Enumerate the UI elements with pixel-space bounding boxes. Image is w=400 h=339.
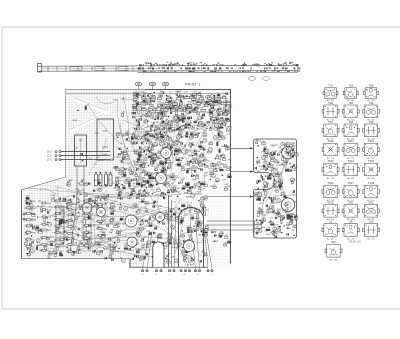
capacitor C1466 [256, 232, 257, 234]
capacitor C845 [150, 150, 151, 152]
resistor R408 [25, 245, 36, 248]
trace wire 22 [75, 229, 143, 239]
transistor T1408 [137, 233, 141, 237]
trace wire 16 [94, 213, 96, 246]
capacitor C114 [210, 101, 211, 103]
resistor R1628 [281, 219, 286, 224]
solder pad 1685 [126, 248, 127, 249]
resistor R777 [204, 196, 207, 199]
chassis strip mid rail [42, 67, 160, 70]
svg-text:1n: 1n [196, 167, 198, 169]
resistor R873 [226, 111, 230, 115]
capacitor C267 [203, 114, 204, 116]
resistor R141 [225, 110, 229, 114]
resistor R1119 [205, 233, 209, 237]
solder pad 1651 [91, 242, 92, 243]
resistor R1600 [291, 152, 294, 157]
solder pad 1361 [260, 220, 261, 221]
corner pad [28, 253, 31, 256]
resistor R352 [166, 105, 169, 108]
svg-text:15k: 15k [201, 240, 204, 242]
resistor R739 [194, 134, 198, 138]
capacitor C131 [183, 120, 184, 122]
resistor R225 [187, 105, 190, 108]
trace wire 14 [126, 242, 168, 250]
resistor R911 [213, 168, 217, 171]
resistor R958 [197, 223, 203, 226]
capacitor C1480 [219, 235, 220, 237]
capacitor C1618 [266, 168, 267, 170]
capacitor C1276 [81, 153, 82, 155]
solder pad 119 [188, 124, 189, 125]
solder pad 694 [164, 132, 165, 133]
capacitor C500 [174, 153, 175, 155]
transistor T793 [227, 126, 231, 130]
resistor R402 [25, 207, 38, 210]
resistor R913 [221, 154, 225, 157]
resistor R1253 [103, 195, 107, 199]
resistor R1084 [180, 218, 185, 223]
solder pad 1652 [27, 238, 28, 239]
solder pad 190 [206, 128, 207, 129]
trace wire 54 [137, 98, 177, 185]
resistor R415 [40, 243, 52, 246]
resistor R1261 [83, 234, 87, 237]
resistor R616 [119, 171, 124, 175]
part footprint TS6 [363, 101, 380, 122]
resistor R1505 [119, 230, 124, 235]
solder pad 262 [206, 102, 207, 103]
transistor T1089 [55, 228, 59, 232]
capacitor C424 [180, 136, 181, 138]
resistor R444 [162, 164, 167, 167]
capacitor C480 [187, 107, 192, 110]
resistor R976 [204, 252, 207, 255]
capacitor C804 [149, 184, 150, 186]
capacitor C266 [137, 119, 138, 121]
capacitor C309 [170, 127, 171, 129]
capacitor C97 C98 (axial pair) [105, 172, 113, 186]
resistor R584 [204, 183, 208, 187]
resistor R368 [215, 116, 220, 120]
capacitor C385 [155, 129, 156, 131]
resistor R1164 [71, 212, 74, 215]
transistor T1493 [270, 156, 274, 160]
resistor R869 [217, 141, 222, 146]
solder pad 679 [197, 135, 198, 136]
capacitor C651 [147, 149, 148, 151]
trace wire 65 [144, 98, 219, 140]
resistor R335 [145, 112, 151, 117]
resistor R1215 [51, 198, 56, 202]
resistor R372 [176, 122, 180, 126]
resistor R1161 [110, 218, 114, 222]
resistor R339 [169, 98, 174, 102]
resistor R998 [205, 227, 209, 230]
solder pad 402 [124, 169, 125, 170]
transistor T263 [206, 95, 210, 99]
resistor R145 [199, 101, 204, 104]
resistor R332 [192, 97, 196, 100]
small board pin label 3 [254, 225, 262, 229]
bottom terminal B11 [198, 270, 200, 272]
capacitor C1083 [167, 255, 168, 257]
solder pad 331 [153, 101, 154, 102]
trace wire 7 [89, 193, 191, 197]
trace wire 71 [88, 104, 122, 145]
solder pad 1304 [265, 176, 266, 177]
resistor R1529 [81, 179, 85, 183]
part footprint TS7 [322, 120, 339, 141]
transistor T223 [150, 115, 154, 119]
solder pad 689 [144, 151, 145, 152]
resistor R554 [156, 156, 162, 159]
capacitor C1377 [259, 180, 260, 182]
resistor R1233 [69, 200, 74, 204]
trace wire 5 [97, 202, 164, 218]
resistor R1680 [135, 217, 139, 220]
resistor R727 [190, 132, 193, 135]
capacitor C256 [150, 129, 151, 131]
solder pad 649 [139, 194, 140, 195]
svg-text:1n: 1n [138, 165, 140, 167]
capacitor C538 [168, 167, 169, 169]
transistor T185 [133, 93, 137, 97]
capacitor C1619 [287, 152, 288, 154]
solder pad 900 [218, 125, 219, 126]
resistor R1585 [136, 92, 141, 95]
capacitor C631 [202, 154, 203, 156]
resistor R384 [226, 101, 231, 104]
resistor R700 [195, 152, 198, 155]
resistor R1194 [26, 201, 31, 205]
solder pad 210 [188, 126, 189, 127]
transistor T914 [159, 260, 163, 264]
transistor T785 [213, 136, 217, 140]
transistor T622 [174, 142, 178, 146]
solder pad 620 [134, 142, 135, 143]
resistor R1542 [67, 181, 72, 185]
resistor R665 [143, 190, 147, 194]
resistor R1474 [224, 242, 229, 246]
capacitor C470 [204, 101, 208, 106]
capacitor C1259 [73, 251, 74, 253]
solder pad 573 [187, 164, 188, 165]
resistor R1559 [67, 199, 71, 202]
solder pad 1359 [286, 197, 287, 198]
resistor R1561 [76, 197, 79, 203]
capacitor C171 [186, 123, 187, 125]
resistor R1592 [275, 168, 279, 174]
solder pad 1133 [37, 217, 38, 218]
svg-text:AC 114: AC 114 [347, 177, 355, 180]
solder pad 569 [161, 134, 162, 135]
solder pad 313 [179, 127, 180, 128]
part footprint S10 [363, 220, 380, 241]
resistor R1563 [89, 203, 94, 207]
resistor R592 [198, 162, 202, 165]
small board PRINT 2 outline [254, 139, 297, 238]
resistor R525 [167, 154, 170, 157]
resistor R1045 [183, 258, 188, 261]
resistor R1373 [266, 183, 269, 187]
capacitor C483 [210, 107, 215, 111]
bottom terminal B13 [211, 270, 213, 272]
transistor T1289 [271, 152, 275, 156]
resistor R1105 [181, 203, 186, 207]
svg-text:TS 20 + 21: TS 20 + 21 [349, 241, 361, 244]
capacitor C666 [153, 144, 154, 146]
connector oval J63 [162, 82, 169, 89]
resistor R1601 [292, 145, 297, 149]
resistor R617 [118, 192, 122, 196]
trace wire 50 [152, 120, 182, 128]
resistor R481 [167, 190, 170, 193]
resistor R165 [187, 106, 190, 110]
resistor R485 [155, 167, 160, 170]
transistor T112 [188, 125, 192, 129]
capacitor C1112 [153, 205, 154, 207]
capacitor C752 [191, 161, 192, 163]
transistor T1022 [139, 227, 143, 231]
trace wire 9 [101, 179, 172, 187]
resistor R314 [225, 102, 229, 107]
chassis tick 8 [125, 66, 127, 71]
resistor R1475 [225, 235, 229, 239]
solder pad 630 [198, 133, 199, 134]
solder pad 1416 [257, 157, 258, 158]
resistor R1219 [59, 211, 65, 215]
trace wire 78 [265, 146, 292, 203]
solder pad 1485 [211, 231, 212, 232]
svg-text:S9: S9 [349, 220, 353, 224]
transistor T828 [217, 162, 221, 166]
capacitor C1030 [154, 201, 155, 203]
transistor T273 [193, 101, 197, 105]
trimmer C61 [127, 237, 137, 247]
bottom terminal B9 [188, 270, 190, 272]
svg-text:15k: 15k [186, 252, 189, 254]
resistor R1625 [287, 223, 290, 226]
trace wire 18 [80, 232, 142, 250]
transistor T1155 [29, 204, 33, 208]
solder pad 460 [204, 164, 205, 165]
solder pad 957 [142, 219, 143, 220]
capacitor C839 [127, 133, 128, 135]
svg-text:GR1: GR1 [348, 200, 354, 204]
resistor R1573 [193, 93, 198, 96]
capacitor C1270 [65, 230, 66, 232]
resistor R909 [229, 107, 234, 112]
capacitor C376 [151, 125, 152, 127]
resistor R425 [66, 203, 78, 206]
resistor R1307 [295, 216, 300, 219]
resistor R102 [206, 102, 211, 105]
svg-text:AC 113: AC 113 [327, 177, 335, 180]
solder pad 919 [208, 104, 209, 105]
capacitor C251 [185, 126, 186, 128]
capacitor C433 [140, 154, 141, 156]
solder pad 215 [202, 114, 203, 115]
svg-text:AC 115: AC 115 [367, 177, 375, 180]
resistor R221 [175, 115, 179, 118]
resistor R833 [165, 155, 169, 159]
resistor R1518 [84, 182, 88, 185]
capacitor C1564 [182, 95, 183, 97]
svg-text:C204: C204 [61, 201, 67, 203]
part footprint TS19 [322, 200, 339, 221]
svg-text:15k: 15k [51, 237, 54, 239]
chassis bracket 3 [118, 67, 128, 70]
terminal JO3 [47, 159, 61, 162]
part footprint TS5 [342, 101, 359, 122]
resistor R420 [54, 218, 66, 221]
capacitor C948 [163, 222, 164, 224]
resistor R618 [169, 162, 175, 168]
capacitor C1633 [272, 211, 273, 213]
resistor R1584 [177, 91, 182, 96]
resistor R447 [136, 137, 141, 143]
trace wire 72 [96, 97, 114, 104]
resistor R432 [66, 243, 78, 246]
svg-text:B 250 47k: B 250 47k [183, 259, 194, 261]
IF transformer L10 [56, 206, 64, 244]
resistor R793 [132, 190, 135, 193]
solder pad 275 [137, 97, 138, 98]
trace wire 32 [48, 190, 107, 216]
trace wire 1 [56, 194, 97, 200]
capacitor C1464 [290, 169, 291, 171]
svg-text:TS19: TS19 [327, 200, 334, 204]
resistor R1238 [116, 230, 120, 234]
capacitor C888 [217, 118, 218, 120]
trace wire 3 [135, 197, 187, 210]
capacitor C1170 [109, 237, 110, 239]
capacitor C479 [178, 107, 183, 111]
resistor R542 [161, 168, 166, 171]
transistor T1002 [183, 253, 187, 257]
capacitor C1513 [137, 251, 138, 253]
capacitor C604 [164, 168, 165, 170]
resistor R843 [152, 154, 158, 157]
chassis strip dense underline [138, 71, 298, 73]
unrouted river band [70, 100, 106, 131]
transistor T790 [223, 164, 227, 168]
trace wire 60 [170, 118, 175, 182]
resistor R582 [175, 151, 180, 154]
resistor R1371 [293, 224, 298, 227]
bottom terminal B2 [146, 270, 148, 272]
resistor R401 [25, 200, 37, 203]
trace wire 24 [59, 233, 150, 257]
resistor R742 [179, 150, 184, 153]
solder pad 836 [155, 170, 156, 171]
resistor R891 [210, 171, 214, 175]
capacitor C1029 [160, 216, 161, 218]
solder pad 116 [162, 122, 163, 123]
resistor R1311 [282, 156, 287, 161]
resistor R130 [163, 114, 167, 117]
transistor T358 [170, 187, 174, 191]
capacitor C637 [141, 142, 142, 144]
solder pad 199 [212, 95, 213, 96]
capacitor C1419 [285, 143, 286, 145]
transistor T170 [165, 120, 169, 124]
solder pad 1278 [82, 160, 83, 161]
resistor R1401 [259, 196, 264, 200]
transistor T1048 [104, 197, 108, 201]
svg-text:22n: 22n [144, 135, 147, 137]
svg-text:22n: 22n [225, 111, 228, 113]
wire fan 5 [190, 220, 196, 269]
transistor T1139 [49, 251, 53, 255]
capacitor C461 [133, 101, 138, 106]
solder pad 245 [150, 128, 151, 129]
resistor R634 [123, 168, 129, 173]
capacitor C1553 [94, 202, 95, 204]
river edge line [75, 98, 106, 111]
resistor R409 [41, 202, 52, 205]
resistor R1437 [281, 191, 286, 194]
capacitor C528 [136, 196, 137, 198]
solder pad 862 [210, 179, 211, 180]
small board pin label 4 [254, 229, 262, 233]
capacitor C244 [190, 117, 191, 119]
trace wire 46 [164, 119, 202, 174]
resistor R1315 [267, 228, 270, 231]
solder pad 1335 [278, 226, 279, 227]
svg-text:22n: 22n [262, 141, 265, 143]
capacitor C1001 [192, 217, 193, 219]
solder pad 527 [165, 194, 166, 195]
resistor R1353 [264, 152, 269, 156]
resistor R441 [83, 245, 94, 248]
solder pad 1264 [47, 217, 48, 218]
resistor R612 [148, 155, 152, 158]
resistor R465 [177, 133, 182, 136]
capacitor C495 [148, 139, 149, 141]
solder pad 1313 [259, 229, 260, 230]
solder pad 990 [143, 258, 144, 259]
capacitor C972 [176, 218, 177, 220]
solder pad 1440 [257, 188, 258, 189]
trace wire 42 [132, 104, 199, 160]
transistor T1147 [71, 252, 75, 256]
resistor R443 [120, 190, 123, 195]
capacitor C970 [202, 234, 203, 236]
resistor R599 [172, 173, 176, 177]
resistor R966 [195, 220, 200, 224]
capacitor C1587 [226, 93, 227, 95]
solder pad 382 [165, 107, 166, 108]
resistor R140 [209, 110, 214, 114]
resistor R428 [141, 183, 146, 187]
chassis tick 5 [91, 66, 93, 71]
capacitor C480 [152, 184, 153, 186]
capacitor C1288 [271, 200, 272, 202]
resistor R605 [138, 159, 143, 162]
capacitor C519 [201, 169, 202, 171]
solder pad 1671 [95, 250, 96, 251]
resistor R544 [119, 192, 124, 196]
part footprint TS11 [342, 139, 359, 160]
resistor R1147 [116, 223, 122, 227]
svg-text:C91: C91 [103, 129, 108, 133]
resistor R1115 [197, 213, 200, 218]
svg-text:TS12: TS12 [368, 139, 375, 143]
capacitor C472 [221, 101, 226, 104]
capacitor C1665 [93, 250, 94, 252]
